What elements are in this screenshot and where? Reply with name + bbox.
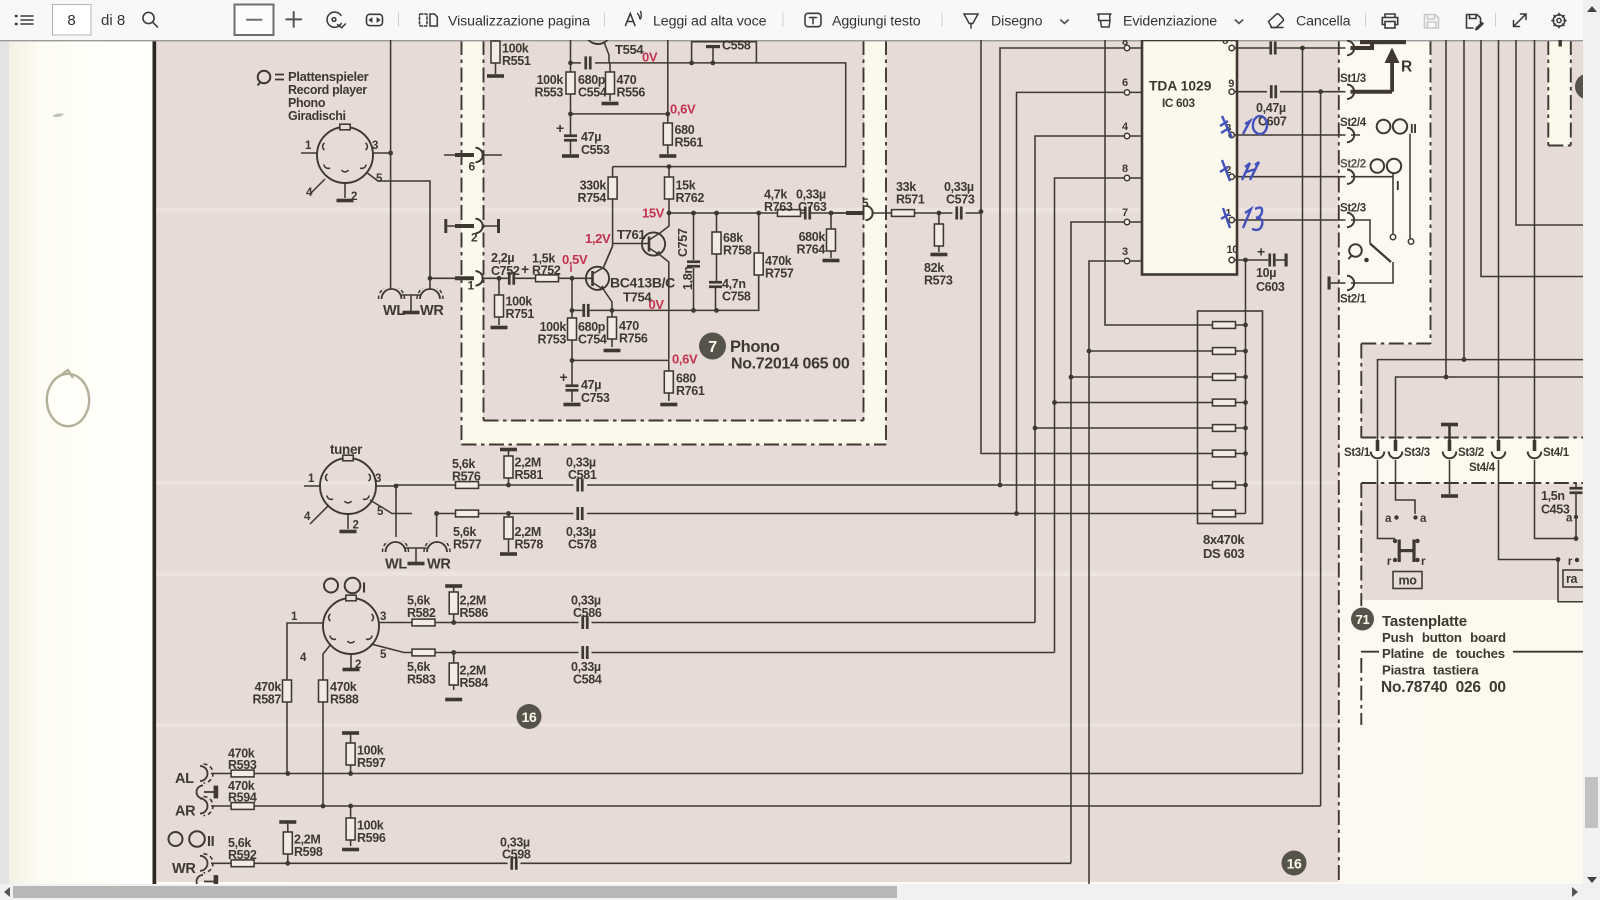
toc icon bbox=[16, 16, 33, 24]
draw pen icon bbox=[964, 14, 978, 28]
capacitor C763 bbox=[804, 207, 811, 220]
resistor R752 bbox=[536, 275, 559, 282]
smudge mark bbox=[52, 113, 64, 117]
svg-text:Phono: Phono bbox=[730, 338, 780, 356]
capacitor C754 bbox=[582, 304, 589, 317]
svg-text:R594: R594 bbox=[228, 791, 257, 805]
svg-text:15V: 15V bbox=[642, 206, 665, 221]
wire vertical corner row 276 bbox=[1481, 40, 1583, 277]
svg-text:1: 1 bbox=[291, 611, 298, 623]
wire AUX pin1 to R587 bbox=[287, 623, 323, 774]
svg-text:6: 6 bbox=[1122, 77, 1128, 89]
wire C603 rail down ladder bbox=[1245, 260, 1247, 514]
svg-text:Phono: Phono bbox=[288, 96, 326, 110]
svg-text:2: 2 bbox=[471, 231, 478, 245]
resistor R551 bbox=[487, 40, 504, 78]
svg-text:Cancella: Cancella bbox=[1296, 14, 1351, 30]
white moat around phono bbox=[461, 40, 886, 445]
capacitor C578 bbox=[576, 507, 583, 520]
transistor T761 bbox=[642, 213, 670, 360]
svg-text:R757: R757 bbox=[765, 267, 794, 281]
svg-text:+: + bbox=[1257, 244, 1265, 260]
record player legend symbol bbox=[258, 71, 285, 86]
svg-text:R587: R587 bbox=[253, 693, 282, 707]
svg-text:R761: R761 bbox=[676, 384, 705, 398]
resistor R763 bbox=[778, 210, 801, 217]
svg-text:+: + bbox=[521, 261, 529, 277]
svg-text:II: II bbox=[207, 834, 215, 850]
thick elbow to top edge bbox=[1351, 42, 1373, 49]
save icon disabled bbox=[1425, 15, 1439, 29]
svg-text:a: a bbox=[1420, 513, 1427, 525]
wire I drop bbox=[1351, 174, 1393, 234]
svg-text:C581: C581 bbox=[568, 468, 597, 482]
voltage 0,5V bbox=[562, 252, 588, 272]
blue handwriting 13 bbox=[1221, 208, 1262, 230]
resistor R756 bbox=[604, 310, 621, 352]
svg-text:+: + bbox=[560, 369, 568, 385]
wire St3/2 lower stub bbox=[1441, 460, 1458, 498]
svg-text:1,5n: 1,5n bbox=[1541, 489, 1565, 503]
svg-text:71: 71 bbox=[1356, 612, 1370, 627]
resistor R754 bbox=[604, 167, 617, 266]
svg-text:Tastenplatte: Tastenplatte bbox=[1382, 613, 1467, 630]
svg-text:1: 1 bbox=[305, 140, 312, 152]
capacitor C752 bbox=[508, 272, 515, 285]
node pin3 record player bbox=[388, 151, 393, 156]
svg-text:Push button board: Push button board bbox=[1382, 630, 1506, 645]
fit width icon bbox=[367, 14, 383, 25]
svg-text:R556: R556 bbox=[617, 86, 646, 100]
wire phono input bbox=[499, 277, 584, 279]
blue handwriting 11 bbox=[1220, 160, 1259, 181]
svg-text:WR: WR bbox=[427, 557, 451, 573]
svg-text:R578: R578 bbox=[515, 538, 544, 552]
capacitor C553 bbox=[562, 114, 579, 158]
svg-text:St2/1: St2/1 bbox=[1340, 294, 1367, 306]
svg-text:R586: R586 bbox=[460, 606, 489, 620]
zoom out button bbox=[235, 5, 274, 36]
svg-text:0,6V: 0,6V bbox=[670, 102, 696, 117]
record player pin wires bbox=[301, 153, 391, 198]
capacitor C757 with labels bbox=[687, 213, 700, 310]
tastenplatte pink bbox=[1361, 483, 1583, 600]
switch lever bbox=[1370, 244, 1391, 263]
wire vertical St4/4 bbox=[1498, 40, 1500, 440]
svg-text:47µ: 47µ bbox=[581, 378, 601, 392]
wire R571 to C573 bbox=[915, 212, 982, 214]
wire tuner WL drop bbox=[395, 486, 397, 537]
svg-text:3: 3 bbox=[372, 140, 378, 152]
DIN connector tuner bbox=[320, 455, 376, 514]
svg-text:10µ: 10µ bbox=[1256, 266, 1276, 280]
svg-text:R754: R754 bbox=[578, 191, 607, 205]
resistor R581 bbox=[500, 448, 517, 485]
ground between WL WR bbox=[402, 295, 421, 314]
resistor R762 bbox=[665, 167, 674, 213]
svg-text:C603: C603 bbox=[1256, 280, 1285, 294]
svg-text:8x470k: 8x470k bbox=[1203, 532, 1245, 547]
blue handwriting 10 bbox=[1220, 116, 1267, 138]
resistor R582 bbox=[412, 619, 435, 626]
zoom in plus bbox=[286, 12, 301, 27]
svg-text:+: + bbox=[556, 120, 564, 136]
print icon bbox=[1382, 14, 1397, 28]
tuner pin ticks bbox=[304, 486, 396, 529]
svg-text:C757: C757 bbox=[676, 228, 690, 257]
svg-text:6: 6 bbox=[469, 160, 476, 174]
svg-text:9: 9 bbox=[1228, 78, 1234, 90]
resistor R764 bbox=[823, 213, 840, 262]
resistor R576 bbox=[456, 482, 479, 489]
earpiece WR tuner bbox=[424, 541, 450, 552]
wire T761 base bbox=[613, 243, 642, 245]
svg-text:Leggi ad alta voce: Leggi ad alta voce bbox=[653, 14, 767, 30]
svg-text:C752: C752 bbox=[491, 264, 520, 278]
svg-text:2,2µ: 2,2µ bbox=[491, 251, 514, 265]
node tuner pin3 bbox=[394, 484, 399, 489]
socket circles I bbox=[1371, 159, 1402, 173]
svg-text:WL: WL bbox=[383, 303, 405, 319]
tastenplatte text dashes bbox=[1361, 651, 1583, 653]
read aloud icon bbox=[626, 12, 642, 26]
wire pin4 to C586 row bbox=[1035, 136, 1124, 623]
wire WR from pin5 bbox=[378, 181, 430, 290]
contact r right bbox=[1568, 556, 1579, 568]
svg-text:C578: C578 bbox=[568, 538, 597, 552]
connector arc top bbox=[1347, 41, 1354, 55]
svg-text:1: 1 bbox=[308, 473, 315, 485]
resistor R573 bbox=[930, 213, 947, 256]
TDA right pins bbox=[1229, 45, 1234, 262]
add text icon bbox=[805, 13, 821, 26]
socket circles II bbox=[1377, 119, 1408, 133]
erase icon bbox=[1269, 14, 1284, 28]
wire ladder row5 bbox=[1035, 427, 1213, 429]
svg-text:No.78740 026 00: No.78740 026 00 bbox=[1381, 679, 1506, 696]
label box mo bbox=[1393, 572, 1422, 589]
contact a C453 bbox=[1566, 513, 1578, 525]
resistor R571 bbox=[892, 210, 915, 217]
svg-text:C553: C553 bbox=[581, 143, 610, 157]
svg-text:R763: R763 bbox=[764, 200, 793, 214]
wire pin10 with C603 bbox=[1234, 259, 1284, 261]
resistor R757 bbox=[754, 213, 763, 310]
badge 16 left bbox=[517, 704, 542, 729]
svg-text:3: 3 bbox=[375, 473, 381, 485]
capacitor C753 bbox=[564, 360, 581, 406]
svg-text:Disegno: Disegno bbox=[991, 14, 1043, 30]
svg-text:10: 10 bbox=[1226, 244, 1238, 256]
page view icon bbox=[420, 14, 438, 26]
svg-text:7: 7 bbox=[1122, 207, 1128, 219]
svg-text:a: a bbox=[1385, 513, 1392, 525]
svg-text:Platine de touches: Platine de touches bbox=[1382, 646, 1505, 661]
resistor R761 bbox=[660, 360, 677, 406]
svg-text:16: 16 bbox=[1287, 856, 1302, 872]
scanner light streaks bbox=[156, 208, 1583, 728]
capacitor C573 bbox=[955, 207, 962, 220]
wire ladder row4 bbox=[1055, 402, 1213, 404]
svg-text:C586: C586 bbox=[573, 606, 602, 620]
svg-text:C558: C558 bbox=[722, 40, 751, 53]
pdf viewer left gutter bbox=[0, 40, 9, 884]
settings gear bbox=[1552, 13, 1566, 28]
svg-text:R596: R596 bbox=[357, 831, 386, 845]
earpiece WR bbox=[417, 288, 443, 299]
scan dark fold line bbox=[153, 40, 157, 884]
svg-text:1: 1 bbox=[468, 279, 475, 293]
connector 1 through moat bbox=[430, 271, 499, 292]
svg-text:1,8n: 1,8n bbox=[681, 266, 695, 290]
svg-text:Giradischi: Giradischi bbox=[288, 109, 346, 123]
wire pin12 row bbox=[1234, 176, 1345, 178]
connector stubs St3 St4 bbox=[1376, 440, 1537, 451]
svg-text:St2/3: St2/3 bbox=[1340, 203, 1366, 215]
svg-text:Evidenziazione: Evidenziazione bbox=[1123, 14, 1217, 30]
wire pin6 to C578 row bbox=[1017, 92, 1125, 513]
svg-text:Visualizzazione pagina: Visualizzazione pagina bbox=[448, 14, 590, 30]
wire pin11 row bbox=[1234, 219, 1345, 221]
svg-text:IC 603: IC 603 bbox=[1162, 96, 1195, 110]
resistor R596 bbox=[342, 806, 359, 851]
wire pin13 row bbox=[1234, 134, 1345, 136]
svg-text:R758: R758 bbox=[723, 244, 752, 258]
resistor R751 bbox=[491, 278, 508, 329]
connector St2/3 bbox=[1347, 213, 1354, 227]
wire AL riser bbox=[1302, 48, 1304, 774]
capacitor C586 bbox=[581, 616, 588, 629]
svg-text:5: 5 bbox=[376, 173, 383, 185]
svg-text:R561: R561 bbox=[675, 136, 704, 150]
svg-text:R553: R553 bbox=[535, 86, 564, 100]
svg-text:C753: C753 bbox=[581, 391, 610, 405]
rotate icon bbox=[327, 12, 345, 28]
wire bus from C573 to ladder row6 bbox=[981, 40, 1213, 454]
resistor R588 bbox=[319, 680, 328, 702]
wire 0V top rail bbox=[571, 63, 846, 167]
connector St2/2 bbox=[1347, 170, 1354, 184]
socket symbol II bbox=[169, 831, 205, 847]
capacitor C554 bbox=[584, 56, 591, 69]
svg-text:St3/2: St3/2 bbox=[1458, 447, 1484, 459]
wire pin3 to bottom bbox=[1089, 261, 1124, 884]
switch H symbol bbox=[1393, 539, 1420, 562]
svg-text:Record player: Record player bbox=[288, 83, 367, 97]
wire AUX pin5 row bbox=[371, 644, 1055, 653]
svg-text:T554: T554 bbox=[615, 42, 644, 57]
node WR input junction bbox=[428, 276, 433, 281]
svg-text:R576: R576 bbox=[452, 470, 481, 484]
svg-text:8: 8 bbox=[67, 12, 75, 29]
wire AUX pin3 row bbox=[379, 622, 1035, 624]
svg-text:TDA 1029: TDA 1029 bbox=[1149, 79, 1212, 94]
earpiece WL tuner bbox=[382, 541, 408, 552]
svg-text:0,6V: 0,6V bbox=[672, 352, 698, 367]
svg-text:C763: C763 bbox=[798, 200, 827, 214]
main pink region bbox=[156, 40, 1339, 882]
resistor R587 bbox=[283, 680, 292, 702]
wire 0,6V lower node bbox=[572, 359, 669, 361]
svg-text:0,5V: 0,5V bbox=[562, 252, 588, 267]
wire 0,6V node bbox=[571, 40, 668, 114]
wire tuner pin5 row start bbox=[370, 500, 1212, 514]
wire AL row bbox=[211, 773, 1303, 775]
svg-text:St4/1: St4/1 bbox=[1543, 447, 1570, 459]
svg-text:C758: C758 bbox=[722, 290, 751, 304]
badge 7 phono bbox=[699, 333, 726, 360]
wire lower 0V rail bbox=[572, 275, 759, 310]
connector 6 through moat bbox=[444, 148, 502, 174]
badge partial right edge bbox=[1575, 74, 1600, 100]
svg-text:St2/4: St2/4 bbox=[1340, 117, 1367, 129]
svg-text:St3/3: St3/3 bbox=[1404, 447, 1430, 459]
svg-text:4: 4 bbox=[300, 652, 307, 664]
svg-text:di 8: di 8 bbox=[101, 12, 125, 29]
phono block pink bbox=[483, 40, 864, 421]
svg-text:a: a bbox=[1566, 513, 1573, 525]
svg-text:R598: R598 bbox=[294, 845, 323, 859]
earpiece WL bbox=[378, 288, 404, 299]
capacitor C758 bbox=[709, 281, 722, 311]
wire bus to ladder row1 bbox=[1105, 40, 1213, 325]
IC TDA1029 block bbox=[1142, 40, 1237, 275]
svg-text:R573: R573 bbox=[924, 274, 953, 288]
connector 5 through moat bbox=[831, 196, 892, 220]
wire St4/4 branch bbox=[1499, 460, 1584, 602]
wire St3/1 to switch H bbox=[1378, 460, 1396, 539]
wire St3/1 riser and row bbox=[1378, 360, 1584, 440]
svg-text:ra: ra bbox=[1566, 572, 1579, 586]
svg-text:I: I bbox=[362, 581, 366, 597]
svg-text:R583: R583 bbox=[407, 673, 436, 687]
svg-text:3: 3 bbox=[380, 611, 386, 623]
svg-text:5: 5 bbox=[862, 196, 869, 210]
svg-text:AL: AL bbox=[175, 771, 194, 787]
highlight icon bbox=[1098, 14, 1112, 27]
svg-text:R751: R751 bbox=[506, 307, 535, 321]
ladder resistors 8x470k bbox=[1213, 322, 1248, 517]
svg-text:8: 8 bbox=[1222, 40, 1228, 47]
capacitor C558 loop bbox=[692, 42, 757, 63]
wire St3/3 riser and row bbox=[1396, 377, 1584, 440]
plug symbol between AL AR bbox=[197, 786, 218, 799]
badge 16 right bbox=[1282, 851, 1307, 876]
svg-text:St1/3: St1/3 bbox=[1340, 73, 1366, 85]
contact dots a bbox=[1394, 515, 1417, 519]
svg-text:C754: C754 bbox=[578, 333, 607, 347]
svg-text:3: 3 bbox=[1122, 246, 1128, 258]
TDA left pins bbox=[1124, 45, 1142, 263]
connector St2/4 bbox=[1347, 128, 1354, 142]
svg-text:4: 4 bbox=[304, 511, 311, 523]
resistor R598 bbox=[279, 820, 296, 863]
resistor R561 bbox=[659, 114, 676, 158]
connector arcs St3 St4 bbox=[1371, 452, 1385, 459]
svg-text:R551: R551 bbox=[502, 54, 531, 68]
page number box bbox=[53, 5, 92, 36]
svg-text:WL: WL bbox=[385, 557, 407, 573]
wire AR row bbox=[211, 805, 1321, 807]
resistor R556 bbox=[602, 63, 619, 105]
svg-text:I: I bbox=[1396, 178, 1399, 193]
svg-text:St2/2: St2/2 bbox=[1340, 159, 1366, 171]
svg-text:mo: mo bbox=[1398, 574, 1417, 588]
svg-text:Plattenspieler: Plattenspieler bbox=[288, 69, 369, 84]
wire vertical to row 377 bbox=[1445, 40, 1447, 377]
wire St2/3 to switch bbox=[1351, 220, 1370, 244]
content top border bbox=[0, 40, 1583, 41]
svg-text:R593: R593 bbox=[228, 758, 257, 772]
svg-text:5: 5 bbox=[380, 649, 387, 661]
svg-text:St4/4: St4/4 bbox=[1469, 462, 1496, 474]
R arrow bbox=[1385, 48, 1400, 92]
svg-text:R752: R752 bbox=[532, 264, 561, 278]
wire pin top-left to C581 row bbox=[1000, 48, 1124, 485]
svg-text:R597: R597 bbox=[357, 756, 386, 770]
svg-text:7: 7 bbox=[708, 339, 717, 356]
svg-text:DS 603: DS 603 bbox=[1203, 546, 1244, 561]
ground pin2 record player bbox=[337, 199, 354, 203]
wire vertical corner row 225 bbox=[1516, 40, 1583, 225]
svg-text:C573: C573 bbox=[946, 193, 975, 207]
svg-text:WR: WR bbox=[420, 303, 444, 319]
svg-text:II: II bbox=[1410, 121, 1417, 136]
svg-text:T761: T761 bbox=[617, 227, 645, 242]
svg-text:R: R bbox=[1401, 59, 1412, 76]
save as icon bbox=[1467, 15, 1485, 31]
expand icon bbox=[1514, 14, 1527, 27]
resistor R578 bbox=[500, 514, 517, 556]
svg-text:C584: C584 bbox=[573, 673, 602, 687]
svg-text:47µ: 47µ bbox=[581, 130, 601, 144]
wire AUX pin4 to R588 bbox=[323, 644, 331, 806]
svg-text:0,47µ: 0,47µ bbox=[1256, 101, 1286, 115]
dash-dot borders bbox=[462, 40, 1584, 882]
resistor R584 bbox=[445, 653, 462, 702]
label box rau bbox=[1563, 570, 1584, 587]
wire ladder row3 bbox=[1071, 376, 1213, 378]
wire AR riser bbox=[1320, 92, 1322, 806]
DIN connector record player bbox=[317, 124, 373, 183]
ground St3/2 top bbox=[1441, 423, 1458, 440]
resistor R593 bbox=[231, 770, 254, 777]
capacitor C584 bbox=[581, 646, 588, 659]
lamp symbol Q bbox=[1349, 244, 1362, 259]
svg-text:C598: C598 bbox=[502, 847, 531, 861]
capacitor C453 bbox=[1570, 483, 1583, 539]
svg-text:R764: R764 bbox=[797, 243, 826, 257]
thick wire to R arrow bbox=[1351, 90, 1393, 94]
node tuner WR junction bbox=[434, 511, 439, 516]
svg-text:R582: R582 bbox=[407, 606, 436, 620]
ground between tuner WL WR bbox=[406, 548, 427, 565]
resistor R597 bbox=[342, 731, 359, 773]
wire pin8 to C584 row bbox=[1055, 178, 1125, 653]
svg-text:Piastra tastiera: Piastra tastiera bbox=[1382, 663, 1479, 678]
svg-text:R762: R762 bbox=[676, 191, 705, 205]
resistor R583 bbox=[412, 649, 435, 656]
ground pin2 tuner bbox=[340, 530, 357, 534]
resistor R577 bbox=[456, 510, 479, 517]
svg-text:R577: R577 bbox=[453, 538, 482, 552]
wire St4/1 to contact bbox=[1535, 460, 1577, 539]
svg-text:BC413B/C: BC413B/C bbox=[610, 275, 675, 291]
wire WL from pin3 bbox=[390, 40, 392, 289]
selector lower pink bbox=[1361, 344, 1583, 438]
svg-text:1,2V: 1,2V bbox=[585, 231, 611, 246]
capacitor C581 bbox=[576, 479, 583, 492]
